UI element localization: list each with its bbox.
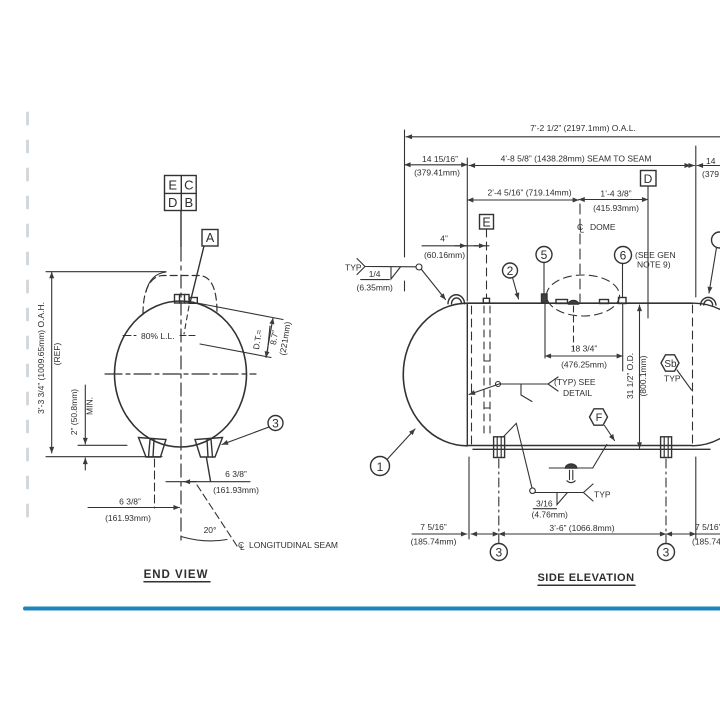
svg-text:(4.76mm): (4.76mm) [532,510,569,520]
hexagon Sb [661,355,679,371]
2'-4 5/16 dimension [467,199,578,201]
valve letter box ECDB [165,176,197,211]
dome outline dashed (end view) [143,276,217,315]
svg-text:DOME: DOME [590,222,616,232]
svg-text:2” (50.8mm): 2” (50.8mm) [69,389,79,435]
vertical centerline [180,248,182,545]
dome ellipse dashed [547,275,620,316]
svg-text:(SEE GEN: (SEE GEN [635,250,676,260]
left head [403,303,467,446]
right leg (end view) [195,438,223,458]
svg-text:1’-4 3/8”: 1’-4 3/8” [600,189,631,199]
svg-text:(379.41mm): (379.41mm) [414,168,460,178]
dim 6 3/8 left [88,507,180,509]
svg-text:MIN.: MIN. [85,397,95,415]
weld leader legs [503,423,532,488]
svg-text:(221mm): (221mm) [277,321,292,356]
small fitting (end view) [189,298,197,304]
svg-text:F: F [596,412,603,424]
svg-text:D.T.=: D.T.= [251,329,264,350]
svg-text:31 1/2” O.D.: 31 1/2” O.D. [625,353,635,399]
seam detail leader [469,384,501,395]
svg-text:18 3/4”: 18 3/4” [571,344,598,354]
longitudinal seam 20 degree line [197,485,237,546]
18 3/4 dimension [544,304,546,358]
leg reference line right [207,458,211,481]
svg-text:(60.16mm): (60.16mm) [424,250,465,260]
horizontal centerline [105,373,256,375]
dip tube dashed [483,306,485,436]
svg-text:D: D [644,172,653,186]
lifting lug right [701,297,717,305]
svg-text:(TYP) SEE: (TYP) SEE [554,377,596,387]
svg-text:14 15/16”: 14 15/16” [422,154,458,164]
svg-text:4”: 4” [440,234,448,244]
D.T. dimension (dished top) [197,303,283,358]
svg-text:L: L [240,542,245,552]
shell top line [467,302,692,304]
tank shell circle (end view) [115,301,247,447]
label box A [184,230,218,335]
balloon 1 [371,457,390,476]
svg-text:7’-2 1/2” (2197.1mm) O.A.L.: 7’-2 1/2” (2197.1mm) O.A.L. [530,123,636,133]
right seam [692,305,694,444]
top fittings [556,300,568,304]
hexagon F [590,409,608,425]
svg-text:6 3/8”: 6 3/8” [225,469,247,479]
svg-text:C: C [184,178,193,193]
shell bottom line [467,445,692,447]
svg-text:SIDE ELEVATION: SIDE ELEVATION [537,572,634,584]
drain fitting [549,467,593,469]
svg-text:(161.93mm): (161.93mm) [105,513,151,523]
svg-text:(185.74mm): (185.74mm) [692,537,720,547]
svg-text:(415.93mm): (415.93mm) [593,203,639,213]
multivalve fitting (end view) [175,295,190,304]
left seam [466,303,468,446]
svg-text:3’-3 3/4” (1009.65mm) O.A.H.: 3’-3 3/4” (1009.65mm) O.A.H. [36,302,46,414]
svg-text:L: L [580,225,585,235]
svg-text:TYP: TYP [594,490,611,500]
fitting 6 [619,298,627,304]
svg-text:END VIEW: END VIEW [144,569,209,581]
svg-text:7 5/16”: 7 5/16” [695,522,720,532]
svg-text:3: 3 [663,546,670,560]
svg-text:B: B [184,195,193,210]
O.A.H. dimension [46,272,166,457]
svg-text:7 5/16”: 7 5/16” [420,522,447,532]
relief valve centerline [573,306,575,350]
scan margin dashed line [26,113,29,520]
svg-text:1: 1 [377,460,384,474]
svg-text:A: A [206,231,215,245]
svg-text:(REF): (REF) [52,343,62,366]
svg-text:2’-4 5/16” (719.14mm): 2’-4 5/16” (719.14mm) [487,188,571,198]
right support leg (side view) [661,437,672,458]
O.D. dimension [639,305,641,449]
right head bottom arc [693,439,720,446]
1'-4 3/8 dimension [579,199,648,201]
balloon 2 [503,263,518,278]
svg-text:TYP: TYP [345,263,362,273]
dim 6 3/8 right [166,481,250,483]
fitting 5 [542,294,548,303]
svg-text:6: 6 [620,249,627,263]
longitudinal seam label [238,540,338,552]
2 inch MIN dimension [78,385,127,470]
4 inch dimension [422,245,489,247]
svg-text:D: D [168,195,177,210]
svg-text:LONGITUDINAL SEAM: LONGITUDINAL SEAM [249,540,338,550]
svg-text:4’-8 5/8” (1438.28mm) SEAM TO: 4’-8 5/8” (1438.28mm) SEAM TO SEAM [501,154,652,164]
svg-text:5: 5 [541,248,548,262]
svg-text:DETAIL: DETAIL [563,388,592,398]
balloon at right edge [712,232,720,248]
svg-text:14: 14 [706,156,716,166]
leg centerlines [498,459,500,533]
balloon 3 (end view) [268,416,283,431]
svg-text:3: 3 [495,546,502,560]
svg-text:(161.93mm): (161.93mm) [213,485,259,495]
label box D [641,171,657,187]
svg-text:3: 3 [272,417,279,431]
balloon 3 right (side view) [665,535,667,544]
dome centerline [579,204,581,302]
lifting lug left [448,295,465,304]
svg-text:E: E [168,178,177,193]
bottom extension lines [468,457,470,539]
80% liquid level line [123,335,139,337]
svg-text:E: E [482,216,490,230]
leader line from valve box [180,211,182,248]
O.A.L. dimension [404,130,406,257]
svg-text:20°: 20° [204,525,217,535]
label box E [480,215,494,230]
right head top arc [693,303,720,309]
svg-text:Sb: Sb [664,359,677,370]
svg-text:(6.35mm): (6.35mm) [357,282,394,292]
bottom dimensions [412,533,467,535]
svg-text:(185.74mm): (185.74mm) [411,537,457,547]
seam to seam dimension [466,158,468,301]
weld callout 3/16 [530,488,536,494]
svg-text:2: 2 [507,264,514,278]
blue divider line [25,607,720,611]
right 14 15/16 dimension [695,146,697,297]
svg-text:6 3/8”: 6 3/8” [119,497,141,507]
svg-text:80% L.L.: 80% L.L. [141,331,175,341]
svg-text:NOTE 9): NOTE 9) [637,260,671,270]
svg-text:3/16: 3/16 [536,499,553,509]
svg-text:(379: (379 [702,169,719,179]
skid runner [473,448,710,450]
svg-text:1/4: 1/4 [369,269,381,279]
svg-text:(476.25mm): (476.25mm) [561,360,607,370]
left leg (end view) [139,438,167,458]
svg-text:3’-6” (1066.8mm): 3’-6” (1066.8mm) [549,523,614,533]
svg-text:(800.1mm): (800.1mm) [638,355,648,396]
left support leg (side view) [494,437,505,458]
balloon 6 [615,247,632,264]
nozzle E stub [483,298,489,303]
balloon 5 [536,247,552,263]
svg-text:TYP: TYP [664,374,681,384]
balloon 3 left (side view) [498,535,500,544]
leg centerline left [154,459,156,508]
